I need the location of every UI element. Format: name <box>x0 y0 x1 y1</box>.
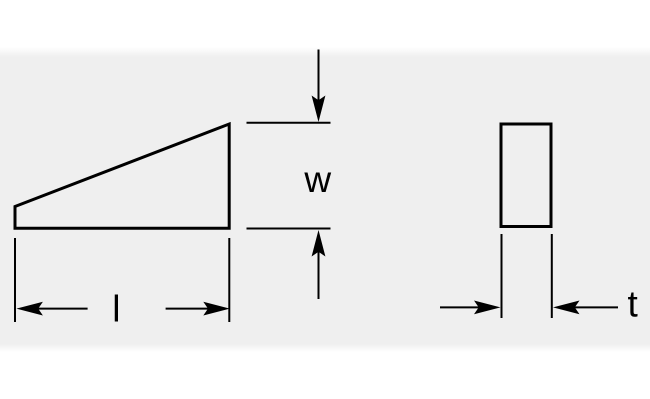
dimension l: left extension line <box>14 238 16 322</box>
dimension t: left arrow shaft <box>440 306 480 308</box>
dimension t: right arrowhead (left) <box>553 301 580 315</box>
dimension w: bottom extension line <box>247 228 331 230</box>
wedge outline <box>15 124 229 228</box>
svg-text:w: w <box>303 159 331 200</box>
svg-text:l: l <box>112 289 120 330</box>
dimension w: top arrow shaft <box>318 50 320 102</box>
dimension w: top arrowhead (down) <box>312 96 326 123</box>
svg-text:t: t <box>627 284 638 325</box>
dimension l: right arrowhead (right) <box>203 302 230 316</box>
dimension t: left arrowhead (right) <box>474 301 501 315</box>
dimension w: bottom arrowhead (up) <box>312 230 326 257</box>
dimension t: right arrow shaft <box>574 306 618 308</box>
dimension l: right arrow shaft <box>166 308 208 310</box>
dimension t: left extension line <box>501 234 503 318</box>
dimension l: left arrowhead (left) <box>16 302 43 316</box>
dimension l: right extension line <box>228 238 230 322</box>
rectangle outline (end view) <box>501 124 551 227</box>
dimension w: bottom arrow shaft <box>318 251 320 299</box>
dimension l: left arrow shaft <box>38 308 88 310</box>
dimension w: top extension line <box>247 122 331 124</box>
dimension t: right extension line <box>551 234 553 318</box>
